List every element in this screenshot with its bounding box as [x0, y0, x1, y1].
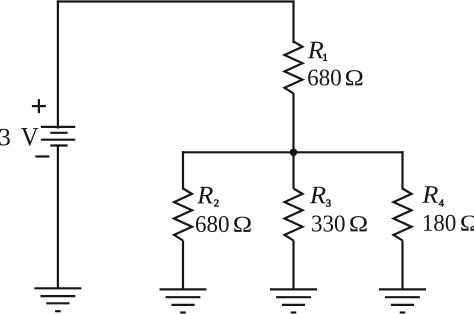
wire: right vertical from top rail down to R1	[292, 2, 294, 42]
label: R4 value 180 ohm	[424, 215, 474, 231]
resistor R3 zigzag	[285, 189, 303, 241]
label: R1 designator	[308, 42, 328, 61]
ground: R2 ground symbol	[160, 289, 207, 312]
battery 3 V: bottom short plate	[50, 144, 67, 146]
ground: R4 ground symbol	[379, 289, 426, 312]
wire: R3 bottom to ground	[292, 241, 294, 290]
label: R2 designator	[197, 187, 218, 207]
wire: R1 bottom to node	[292, 93, 294, 152]
label: R2 value 680 ohm	[196, 216, 251, 232]
wire: top horizontal rail	[58, 0, 294, 2]
resistor R2 zigzag	[174, 189, 192, 241]
ground: R3 ground symbol	[270, 289, 317, 312]
wire: R2 bottom to ground	[182, 241, 184, 290]
wire: R4 bottom to ground	[401, 241, 403, 290]
wire: left vertical from battery + terminal to top rail	[57, 2, 59, 128]
+ polarity mark of battery	[32, 99, 46, 113]
battery 3 V: top long plate	[41, 126, 75, 128]
label: 3 V source value	[0, 128, 38, 146]
label: R3 value 330 ohm	[312, 215, 367, 231]
label: R3 designator	[310, 187, 331, 207]
- polarity mark of battery	[35, 155, 49, 157]
wire: battery - terminal down to ground	[57, 146, 59, 289]
ground: battery ground symbol	[34, 288, 81, 311]
wire: node rail down to R2	[182, 152, 184, 188]
wire: node rail down to R4	[401, 152, 403, 188]
label: R1 value 680 ohm	[308, 69, 362, 85]
battery 3 V: lower long plate	[41, 139, 75, 141]
wire: node down to R3	[292, 152, 294, 188]
battery 3 V: upper short plate	[50, 132, 67, 134]
resistor R1 zigzag	[285, 41, 303, 93]
label: R4 designator	[422, 186, 444, 206]
resistor R4 zigzag	[394, 189, 412, 241]
wire: node horizontal rail	[183, 151, 403, 153]
node: junction dot at R1/R2/R3/R4 rail	[290, 149, 298, 157]
